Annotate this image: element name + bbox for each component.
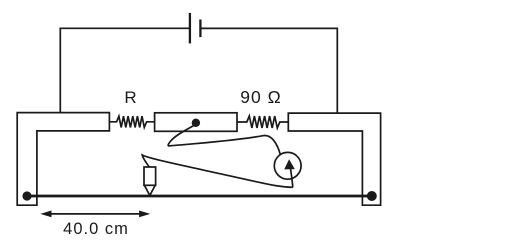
jockey tip: [144, 185, 155, 195]
node: tap point on middle strip: [192, 119, 200, 127]
galvanometer needle: [291, 169, 293, 188]
node: left end of slide wire: [22, 191, 31, 200]
svg-text:40.0 cm: 40.0 cm: [63, 220, 129, 238]
svg-text:R: R: [124, 88, 136, 107]
dimension arrow 40.0 cm: [49, 213, 142, 215]
galvanometer G body: [274, 152, 301, 179]
node: right end of slide wire: [367, 191, 377, 201]
wire battery top-right segment: [201, 28, 338, 113]
svg-text:90 Ω: 90 Ω: [240, 87, 281, 107]
left copper strip (L-shape): [17, 113, 109, 206]
middle copper strip: [155, 113, 237, 132]
wire battery top-left segment: [60, 28, 189, 112]
battery B1 long plate: [189, 13, 191, 44]
wire from middle-strip tap to galvanometer top (hook curve): [168, 125, 280, 155]
slide wire: [27, 195, 372, 198]
jockey body: [144, 167, 156, 185]
resistor 90 ohm: [237, 116, 288, 128]
battery B1 short plate: [199, 20, 201, 38]
wire from jockey to galvanometer bottom: [142, 155, 293, 187]
right copper strip (L-shape): [288, 113, 380, 205]
resistor R: [109, 116, 154, 127]
